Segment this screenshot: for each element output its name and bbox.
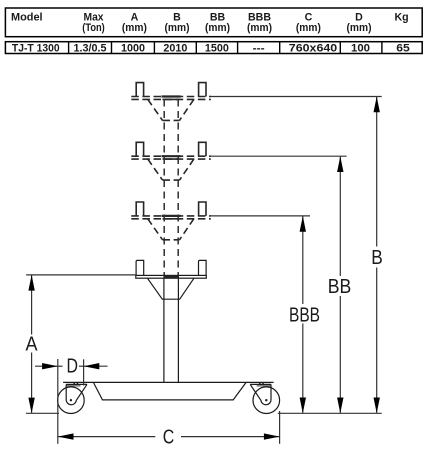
- solid saddle platform: [136, 260, 207, 382]
- extension line A (saddle level): [26, 274, 136, 276]
- arrow B bottom: [374, 398, 380, 414]
- arrow BBB top: [300, 216, 306, 232]
- phantom saddle position 3: [131, 202, 211, 240]
- arrow BB bottom: [337, 398, 343, 414]
- ram column: [163, 278, 165, 382]
- svg-text:760x640: 760x640: [289, 43, 337, 55]
- right caster: [250, 382, 279, 413]
- arrowheads: [28, 97, 380, 440]
- saddle left bracket: [136, 260, 144, 275]
- svg-text:BB: BB: [328, 276, 352, 298]
- extension line level 2 (BB): [210, 155, 347, 157]
- left caster fork: [66, 384, 87, 404]
- phantom saddle position 2: [131, 142, 211, 180]
- ground extension line left: [26, 412, 59, 414]
- table data row box: [5, 42, 422, 54]
- vertical extension line D/C left: [57, 359, 59, 444]
- left wheel hub: [70, 399, 72, 401]
- svg-text:65: 65: [396, 43, 410, 55]
- svg-text:1000: 1000: [121, 43, 145, 55]
- svg-text:---: ---: [253, 43, 265, 55]
- vertical extension line C right: [279, 411, 281, 444]
- svg-text:(mm): (mm): [205, 22, 230, 34]
- svg-text:BBB: BBB: [289, 305, 320, 327]
- dimension line D left tail: [35, 365, 58, 367]
- svg-text:C: C: [163, 426, 175, 448]
- dimension line D stubs: [58, 365, 63, 367]
- table header box: [5, 8, 422, 54]
- svg-text:100: 100: [351, 43, 370, 55]
- svg-text:D: D: [66, 356, 78, 378]
- phantom saddle position 1: [131, 83, 211, 121]
- right caster kingpin: [259, 382, 261, 384]
- arrow C right: [264, 433, 280, 439]
- base frame: [63, 382, 274, 400]
- svg-text:2010: 2010: [163, 43, 187, 55]
- data row column separators: [69, 42, 382, 54]
- saddle right bracket: [199, 260, 207, 275]
- svg-text:1500: 1500: [205, 43, 229, 55]
- svg-text:B: B: [371, 247, 383, 269]
- svg-text:(mm): (mm): [296, 22, 321, 34]
- right caster fork: [250, 384, 271, 404]
- arrow B top: [374, 97, 380, 113]
- extension line level 3 (BBB): [210, 215, 310, 217]
- dimension labels: [26, 247, 383, 448]
- extension line level 1 (B): [210, 96, 382, 98]
- phantom ram dashed left edge: [163, 100, 165, 276]
- arrow BB top: [337, 156, 343, 172]
- arrow A top: [28, 275, 34, 291]
- dimension line C: [58, 436, 155, 438]
- dimension line BB: [339, 157, 341, 276]
- vertical extension line D right: [83, 359, 85, 385]
- arrow A bottom: [28, 398, 34, 414]
- svg-text:TJ-T 1300: TJ-T 1300: [12, 43, 60, 55]
- saddle support trapezoid: [147, 278, 194, 299]
- arrow C left: [58, 433, 74, 439]
- base pan profile: [93, 382, 246, 400]
- arrow D right (points left): [84, 363, 100, 369]
- right wheel: [253, 387, 280, 414]
- svg-text:(mm): (mm): [347, 22, 372, 34]
- arrow D left (points right): [42, 363, 58, 369]
- ground extension line right: [278, 412, 382, 414]
- svg-text:Model: Model: [11, 12, 43, 24]
- svg-text:(mm): (mm): [122, 22, 147, 34]
- dimension line B: [376, 97, 378, 247]
- dimension line BBB: [302, 216, 304, 304]
- left caster: [58, 382, 87, 413]
- data row text: [12, 43, 410, 55]
- svg-text:(mm): (mm): [247, 22, 272, 34]
- left wheel: [58, 387, 85, 414]
- base top line: [63, 381, 274, 383]
- right caster plate: [250, 383, 271, 385]
- dimension line A: [31, 275, 33, 334]
- right wheel hub: [265, 399, 267, 401]
- phantom ram dashed right edge: [177, 100, 179, 276]
- dimension line D right tail: [84, 365, 108, 367]
- left caster kingpin: [73, 382, 75, 384]
- ram cap dark section: [163, 275, 179, 278]
- arrow BBB bottom: [300, 398, 306, 414]
- svg-text:(Ton): (Ton): [82, 22, 105, 34]
- left caster plate: [66, 383, 87, 385]
- header row text: [11, 12, 409, 35]
- svg-text:(mm): (mm): [165, 22, 190, 34]
- svg-text:1.3/0.5: 1.3/0.5: [74, 43, 107, 55]
- svg-text:A: A: [26, 334, 39, 356]
- svg-text:Kg: Kg: [394, 12, 408, 24]
